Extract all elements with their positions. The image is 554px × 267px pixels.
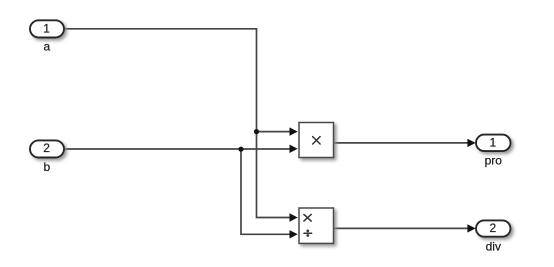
svg-text:1: 1 <box>43 21 50 35</box>
svg-text:1: 1 <box>490 135 497 149</box>
svg-text:a: a <box>43 40 50 54</box>
svg-text:2: 2 <box>43 141 50 155</box>
svg-text:2: 2 <box>490 221 497 235</box>
svg-text:div: div <box>486 239 501 253</box>
svg-text:b: b <box>43 160 50 174</box>
svg-text:pro: pro <box>485 153 503 167</box>
